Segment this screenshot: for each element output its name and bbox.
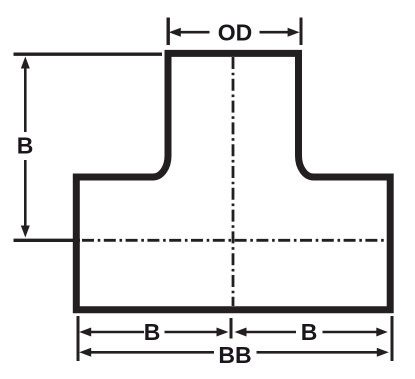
arrow up (B left top) bbox=[21, 57, 30, 69]
bottom extension line left bbox=[77, 316, 80, 361]
bottom extension line right bbox=[391, 316, 394, 361]
bottom B left segment: arrow left bbox=[79, 328, 91, 337]
OD arrow left bbox=[169, 28, 181, 37]
tee fitting outline bbox=[76, 53, 390, 309]
extension line left of body at centerline bbox=[14, 239, 81, 242]
dimension B left: vertical line bbox=[24, 66, 27, 132]
bottom B right segment: arrow left bbox=[235, 328, 247, 337]
bottom extension line middle bbox=[230, 318, 233, 339]
OD dimension: right tick bbox=[300, 18, 303, 46]
svg-text:BB: BB bbox=[218, 342, 251, 368]
bottom B right segment: arrow right bbox=[376, 328, 388, 337]
BB dimension: arrow left bbox=[79, 348, 91, 357]
svg-text:B: B bbox=[144, 319, 161, 345]
arrow down (B left bottom) bbox=[21, 226, 30, 238]
svg-text:B: B bbox=[17, 133, 34, 159]
OD line left segment bbox=[178, 31, 210, 34]
vertical centerline bbox=[232, 57, 235, 306]
horizontal centerline bbox=[82, 239, 388, 242]
OD dimension: left tick bbox=[166, 18, 169, 46]
BB dimension: arrow right bbox=[377, 348, 389, 357]
OD line right segment bbox=[260, 31, 291, 34]
OD arrow right bbox=[288, 28, 300, 37]
svg-text:B: B bbox=[301, 319, 318, 345]
svg-text:OD: OD bbox=[218, 20, 253, 46]
extension line top left (branch top level) bbox=[14, 53, 163, 56]
bottom B left segment: arrow right bbox=[217, 328, 229, 337]
